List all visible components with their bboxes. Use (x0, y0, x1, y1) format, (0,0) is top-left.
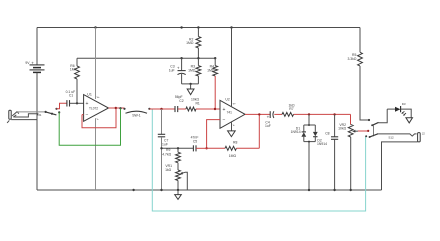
svg-text:SW-1: SW-1 (132, 114, 141, 118)
resistor R6 (70, 58, 80, 103)
svg-text:9V: 9V (25, 61, 30, 65)
svg-text:1MΩ: 1MΩ (207, 69, 215, 73)
output jack J2 (382, 131, 426, 190)
svg-text:D3: D3 (402, 102, 406, 106)
wire U2 output row (red) (245, 113, 351, 115)
svg-text:+: + (267, 114, 270, 119)
wire U1 feedback loop (red) (82, 108, 116, 128)
svg-text:1MΩ: 1MΩ (186, 41, 194, 45)
resistor R5 LED dropper (347, 28, 369, 121)
svg-text:1uF: 1uF (265, 124, 271, 128)
wire bias rail VB (77, 57, 215, 59)
resistor R4 (207, 58, 217, 76)
resistor R2 (186, 28, 201, 59)
node dot diode tap (308, 113, 310, 115)
svg-text:1MΩ: 1MΩ (188, 69, 196, 73)
svg-text:1kΩ: 1kΩ (165, 168, 172, 172)
svg-text:C5: C5 (193, 139, 197, 143)
node dot U2 + input junction (214, 108, 216, 110)
svg-text:1N914: 1N914 (317, 142, 327, 146)
wire cyan bypass (152, 110, 365, 212)
wire VR2 wiper to switch (red) (358, 130, 368, 132)
op-amp U2 741 (220, 97, 245, 128)
svg-text:3.3kΩ: 3.3kΩ (347, 57, 356, 61)
node dot at C7 line (160, 147, 162, 149)
switch SW-IN (input bypass SPDT) (45, 108, 61, 115)
svg-text:v-: v- (233, 123, 235, 127)
node dot U1 output feedback tee (115, 107, 117, 109)
node dot feedback/C5 junction (205, 147, 207, 149)
input jack J1 (7, 110, 46, 123)
svg-text:1MΩ: 1MΩ (229, 154, 237, 158)
switch SW-1 (123, 108, 150, 118)
wire U2 V- stub (231, 122, 233, 130)
LED D3 (387, 102, 411, 118)
node dot feedback tee (258, 113, 260, 115)
svg-text:+: + (177, 65, 180, 70)
resistor R1 (178, 98, 220, 112)
svg-text:1N914: 1N914 (291, 130, 301, 134)
svg-text:S12: S12 (388, 135, 394, 139)
wire U2 - input path (red) (207, 120, 220, 149)
svg-text:v-: v- (97, 117, 99, 121)
wire top supply rail (37, 27, 360, 29)
node dot C8 tap (333, 113, 335, 115)
node dot bottom rail x=133.6 (132, 189, 134, 191)
node dot C7 tap (red) (160, 108, 162, 110)
wire switch to C2 (red) (149, 108, 174, 110)
svg-text:U1: U1 (87, 92, 92, 96)
svg-text:R8: R8 (233, 140, 237, 144)
svg-text:−: − (223, 118, 226, 124)
svg-text:+: + (31, 61, 34, 66)
wire bottom ground rail (37, 189, 382, 191)
node dot C7 at ground rail (160, 189, 162, 191)
resistor R9 (162, 148, 180, 170)
svg-text:1uF: 1uF (162, 142, 168, 146)
resistor R8 feedback (207, 140, 260, 158)
svg-text:+: + (223, 107, 226, 113)
svg-text:J1: J1 (39, 113, 42, 117)
battery BT1 (25, 28, 44, 191)
wire R4 bottom to U2 + input (red) (214, 76, 216, 109)
svg-text:C8: C8 (325, 131, 329, 135)
wire U2 V+ from top rail (231, 28, 233, 107)
node dot green bypass tap (119, 107, 121, 109)
svg-text:741: 741 (227, 110, 233, 114)
op-amp U1 TL072 (84, 92, 109, 121)
potentiometer VR1 (165, 164, 187, 190)
capacitor C1 (66, 90, 84, 107)
node dot R9 top (177, 147, 179, 149)
svg-text:v+: v+ (233, 101, 236, 105)
svg-text:C1: C1 (69, 94, 73, 98)
node dot C1/R6 junction (76, 102, 78, 104)
capacitor C3 electrolytic (169, 58, 186, 84)
ground arrow under C3/R3 (187, 84, 194, 95)
svg-text:TL072: TL072 (89, 106, 98, 110)
node dot top rail at x=95.5 (94, 26, 96, 28)
potentiometer VR2 volume (338, 114, 358, 190)
node dot VR1 at ground rail (177, 189, 179, 191)
capacitor C4 (265, 111, 274, 128)
ground arrow under U2 (228, 131, 236, 137)
ground arrow below rail at VR1 (175, 190, 182, 199)
svg-text:v+: v+ (97, 95, 100, 99)
wire C3-R3 ground join (182, 83, 199, 85)
svg-text:J2: J2 (422, 131, 425, 135)
switch S1 DPDT (365, 122, 394, 139)
svg-text:−: − (86, 112, 89, 118)
node dot switch middle contact (367, 130, 369, 132)
wire green bypass (59, 109, 120, 146)
capacitor C7 chain (158, 109, 169, 190)
svg-text:R7: R7 (289, 107, 293, 111)
node dot VB rail x=181.6 (180, 57, 182, 59)
svg-text:U2: U2 (225, 97, 229, 101)
svg-text:R1: R1 (195, 101, 199, 105)
wire S1 pole2 to output jack (378, 134, 416, 136)
capacitor C8 (325, 114, 338, 190)
node dot diode at ground rail (308, 189, 310, 191)
resistor R7 (282, 103, 295, 116)
svg-text:1M: 1M (70, 68, 75, 72)
node dot VB rail x=198.4 (197, 57, 199, 59)
svg-text:C2: C2 (179, 99, 183, 103)
node dot top rail at x=181.6 (180, 26, 182, 28)
wire switch to C1 (red) (57, 103, 67, 109)
node dot VR2 at ground rail (350, 189, 352, 191)
wire U1 - input stub (red) (82, 114, 84, 116)
node dot switch top contact (368, 119, 370, 121)
node dot C8 at ground rail (333, 189, 335, 191)
node dot top rail at x=231.5 (230, 26, 232, 28)
node dot VB rail x=215.2 (214, 57, 216, 59)
wire U1 V- to ground rail (95, 118, 97, 190)
node dot join x=190.6 (189, 83, 191, 85)
svg-text:10kΩ: 10kΩ (338, 127, 346, 131)
wire U1 V+ from top rail (95, 28, 97, 100)
resistor R3 (188, 58, 201, 84)
wire U1 output (red) (109, 107, 125, 109)
wire S1 pole1 to LED (379, 109, 388, 123)
capacitor C5 (191, 135, 207, 151)
svg-text:1uF: 1uF (169, 69, 175, 73)
ground arrow under LED (406, 118, 413, 123)
wire C5 left to C7 chain (162, 147, 194, 149)
svg-text:4.7kΩ: 4.7kΩ (162, 152, 171, 156)
diode pair D1/D2 clippers (291, 114, 328, 190)
svg-text:+: + (86, 101, 89, 107)
node dot top rail at x=198.4 (197, 26, 199, 28)
capacitor C2 (175, 95, 184, 112)
wire U2 output feedback drop (red) (258, 114, 260, 148)
